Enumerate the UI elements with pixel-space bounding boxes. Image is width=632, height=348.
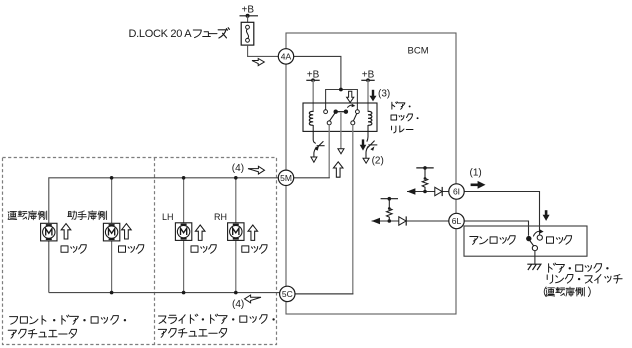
svg-text:5M: 5M (280, 173, 292, 183)
label slide door lock actuator (158, 314, 274, 337)
wire 6I to lock contact (464, 192, 539, 235)
continuation triangle left driver (311, 157, 317, 162)
svg-text:RH: RH (214, 212, 227, 222)
svg-text:5C: 5C (282, 289, 293, 299)
svg-text:BCM: BCM (408, 46, 429, 57)
svg-text:(4): (4) (232, 163, 244, 174)
junction dots actuator buses (110, 176, 238, 294)
driver transistor right (lock driver) with (2) (366, 125, 377, 158)
label front door lock actuator (8, 315, 126, 338)
motor M4 RH (228, 223, 244, 241)
wire +B to left coil (312, 80, 314, 112)
continuation triangle right driver (363, 155, 384, 166)
lock contact circle (537, 235, 542, 240)
power +B relay coil left (306, 70, 319, 83)
driver transistor left (unlock driver) (313, 125, 324, 157)
actuator dashed enclosure (3, 158, 277, 345)
svg-text:(2): (2) (372, 155, 384, 166)
arrow head to ECU left 6I row (407, 188, 415, 195)
BCM box (286, 33, 456, 314)
label lock switch (547, 236, 572, 245)
wire 6L to unlock contact (464, 221, 528, 236)
wire 4A to relay feed (294, 56, 341, 89)
wire relay center stem down (340, 113, 342, 149)
ground (527, 264, 541, 270)
label LH (162, 212, 174, 222)
svg-text:4A: 4A (281, 51, 292, 61)
switch common pivot (530, 241, 538, 251)
label D.LOCK 20 A fuse (129, 28, 230, 40)
relay center contact dots (334, 110, 349, 114)
label lock M2 (119, 245, 144, 254)
label driver side (8, 211, 47, 220)
label unlock (470, 236, 515, 245)
wire branch LH motor (183, 178, 185, 293)
label door lock link switch line2 (547, 275, 622, 284)
label lock M4 (242, 245, 267, 254)
arrow relay actuation curved (347, 104, 355, 108)
svg-text:(4): (4) (232, 299, 244, 310)
svg-text:(3): (3) (378, 89, 390, 100)
node 6L (449, 213, 464, 228)
arrow (3) solid down (370, 89, 391, 102)
continuation triangle center stem (338, 149, 344, 154)
node 5M (278, 170, 293, 185)
power +B relay coil right (361, 70, 374, 83)
svg-text:6I: 6I (453, 187, 460, 197)
arrow flow right below 4A wire (252, 59, 264, 66)
wire +B to right coil (367, 80, 369, 112)
motor M2 passenger side (103, 223, 119, 241)
fuse D.LOCK 20A (241, 22, 254, 45)
motor M1 driver side (41, 223, 57, 241)
wire pivot to ground (534, 251, 536, 264)
power +B fuse supply (240, 5, 259, 18)
diode D1 6I row (435, 187, 442, 196)
svg-text:(1): (1) (470, 168, 482, 179)
wire +B to fuse (247, 16, 249, 22)
wire branch RH motor (235, 178, 237, 293)
wire right pivot down to 5C row (295, 125, 353, 294)
label passenger side (68, 211, 107, 220)
relay contact left (unlock side) (324, 110, 336, 125)
label door lock link switch line3 (driver side) (544, 287, 590, 297)
node 4A (278, 49, 293, 64)
diode D2 6L row (399, 216, 406, 225)
unlock contact dot (526, 236, 531, 241)
arrow solid down at lock contact (543, 210, 550, 221)
motor M3 LH (175, 223, 191, 241)
wire branch driver-side motor (111, 178, 113, 293)
svg-text:6L: 6L (452, 216, 462, 226)
arrow hollow down into relay (347, 91, 354, 102)
wire 6I row inside BCM (407, 191, 449, 193)
wire relay contact feed bar (326, 88, 358, 110)
svg-text:D.LOCK 20 A: D.LOCK 20 A (129, 28, 193, 40)
arrow lock direction M4 (248, 225, 258, 240)
svg-text:LH: LH (162, 212, 174, 222)
label door lock link switch line1 (549, 263, 609, 272)
resistor R1 pullup 6I row (416, 166, 433, 193)
wire fuse to node 4A (248, 45, 279, 56)
relay coil left (309, 111, 313, 125)
relay contact right (lock side) (351, 110, 360, 125)
arrow lock direction M2 (122, 224, 132, 239)
label lock M1 (61, 245, 86, 254)
label (4) with arrow left at 5C (232, 295, 261, 310)
node 5C (280, 286, 295, 301)
wire left pivot to 5M row (294, 125, 330, 178)
door lock link switch box (464, 226, 587, 256)
arrow switch actuation curved (533, 229, 543, 236)
label door lock relay (391, 102, 419, 133)
arrow head to ECU left 6L row (372, 218, 380, 225)
resistor R2 pullup 6L row (381, 197, 398, 223)
relay box door lock relay (303, 103, 377, 131)
label lock M3 (191, 245, 216, 254)
node 6I (449, 184, 464, 199)
arrow hollow up below relay (333, 162, 343, 177)
label RH (214, 212, 227, 222)
relay coil right (368, 111, 372, 125)
wire bottom bus 5C row (49, 292, 280, 294)
wire top bus 5M row (49, 178, 280, 293)
arrow solid down beside right driver (360, 139, 367, 150)
label (1) with solid right arrow (470, 168, 486, 189)
arrow lock direction M3 (195, 225, 205, 240)
wire 6L row inside BCM (372, 220, 449, 222)
arrow lock direction M1 (61, 224, 71, 239)
label (4) with arrow right at 5M (232, 163, 265, 174)
